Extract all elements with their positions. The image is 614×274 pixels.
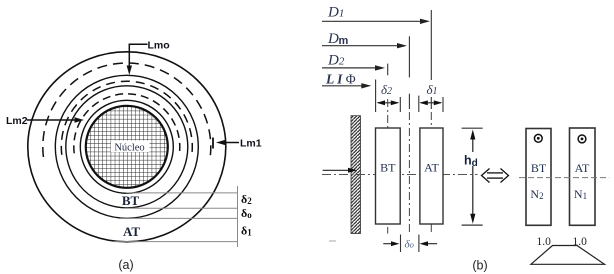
svg-text:δo: δo <box>405 239 414 251</box>
D2 arrow <box>322 67 379 69</box>
svg-text:1.0: 1.0 <box>537 236 552 248</box>
equivalence double arrow <box>482 169 509 183</box>
nucleo label box <box>111 141 150 153</box>
svg-text:AT: AT <box>575 161 590 175</box>
delta tangent line 2 (BT outer) <box>123 207 238 209</box>
hd label background <box>463 152 483 166</box>
small gray dash artifact <box>329 240 336 242</box>
delta-o tick left <box>400 235 402 253</box>
wall hatched bar <box>351 116 361 234</box>
dashed line through right group <box>519 177 609 179</box>
mid axis dash-dot <box>408 112 410 234</box>
right BT rect <box>526 129 551 226</box>
Lm2 arrow <box>27 119 77 121</box>
delta tangent line 3 (AT inner) <box>120 217 238 219</box>
Lm1 arrowhead <box>216 140 226 145</box>
nucleo core hatched circle <box>86 106 168 188</box>
extension line BT left <box>375 80 377 113</box>
D1 arrow <box>322 20 424 22</box>
LI-phi arrow <box>322 85 366 87</box>
AT outer circle <box>28 52 226 242</box>
svg-text:BT: BT <box>380 161 396 175</box>
delta-o left arrow <box>383 243 394 245</box>
Lm1 arrow <box>222 142 239 144</box>
svg-text:AT: AT <box>123 224 140 239</box>
extension line BT right <box>399 97 401 112</box>
hd top tick <box>462 127 483 129</box>
svg-text:Núcleo: Núcleo <box>114 143 144 154</box>
svg-text:BT: BT <box>122 193 140 208</box>
BT winding rect <box>376 128 401 224</box>
Lm1 tick <box>212 138 214 149</box>
svg-text:AT: AT <box>424 161 439 175</box>
delta1 dimension arrows <box>421 102 441 104</box>
AT centerline solid top <box>430 10 432 80</box>
dot-in-circle right <box>578 135 586 143</box>
arrow into wall <box>323 169 351 171</box>
delta tangent line 4 (AT outer) <box>113 241 238 243</box>
svg-text:D1: D1 <box>327 5 344 21</box>
extension line AT left <box>418 96 420 112</box>
Lm1 dashed mean arc <box>43 63 211 157</box>
delta2 dimension arrows <box>378 102 398 104</box>
svg-text:Lmo: Lmo <box>148 40 170 52</box>
Lmo dashed mean arc <box>61 81 192 155</box>
AT centerline dash-dot <box>430 112 432 234</box>
svg-text:D2: D2 <box>327 53 345 69</box>
AT inner circle <box>55 75 198 218</box>
BT centerline dash-dot <box>387 99 389 234</box>
extension line BT centerline top <box>387 64 389 76</box>
svg-text:(a): (a) <box>118 258 133 272</box>
AT winding rect <box>420 128 443 224</box>
Lmo leader line <box>129 44 147 69</box>
delta-o right arrow <box>425 243 437 245</box>
svg-text:(b): (b) <box>472 259 487 273</box>
horizontal centerline (b) dash-dot <box>322 174 478 176</box>
svg-text:D: D <box>327 31 339 47</box>
delta tangent line 1 (BT inner) <box>126 192 238 194</box>
Lm2 dashed mean arc <box>74 94 180 153</box>
svg-text:L I Φ: L I Φ <box>325 72 356 87</box>
svg-text:1.0: 1.0 <box>573 236 588 248</box>
BT outer circle <box>66 86 188 208</box>
svg-text:Lm2: Lm2 <box>6 115 28 127</box>
svg-text:BT: BT <box>531 161 547 175</box>
extension line AT right <box>442 97 444 112</box>
Lm2 arrowhead <box>75 117 85 122</box>
svg-text:Lm1: Lm1 <box>240 138 262 150</box>
right AT rect <box>570 128 596 225</box>
delta vertical reference line <box>237 186 239 247</box>
mmf trapezoid <box>531 246 605 265</box>
hd dimension line with arrows <box>472 134 474 219</box>
dot-in-circle left <box>534 134 542 142</box>
BT inner circle <box>80 100 173 193</box>
hd bottom tick <box>462 224 483 226</box>
delta-o tick right <box>418 235 420 253</box>
mid axis solid top <box>408 36 410 77</box>
Lmo arrowhead <box>127 66 132 76</box>
Dm arrow <box>322 45 401 47</box>
